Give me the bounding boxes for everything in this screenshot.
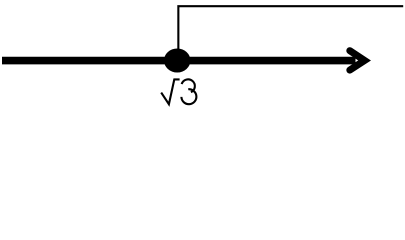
arrowhead bbox=[350, 51, 365, 70]
label √3 : digit 3 upper bowl bbox=[182, 79, 195, 92]
ray bracket from √3 to +infinity (thin corner line) bbox=[178, 6, 403, 55]
point at √3 (filled dot) bbox=[164, 48, 190, 72]
number line (thick shaft) bbox=[2, 57, 356, 65]
label √3 : digit 3 lower bowl bbox=[181, 89, 196, 104]
label √3 : radical sign bbox=[161, 79, 179, 104]
